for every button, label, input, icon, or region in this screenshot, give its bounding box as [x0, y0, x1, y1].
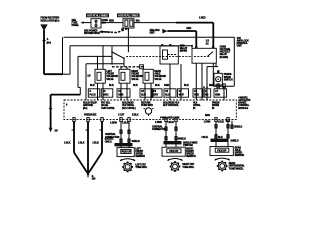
sensor B wires — [166, 122, 176, 148]
pressure warning switch box — [214, 73, 222, 86]
sensor B inline connectors — [165, 127, 177, 140]
svg-text:ONLY): ONLY) — [105, 140, 112, 143]
wire thick drop to relay — [212, 23, 214, 49]
svg-text:RED: RED — [194, 94, 199, 97]
fuse panel header HOT AT ALL TIMES 2 — [117, 13, 140, 17]
svg-text:PICK UP: PICK UP — [122, 151, 131, 154]
svg-text:BLK: BLK — [226, 120, 231, 123]
module internal labels col 4 — [141, 102, 153, 108]
svg-text:SHIELD: SHIELD — [178, 137, 186, 140]
svg-text:1 BRN: 1 BRN — [204, 120, 211, 123]
pressure switch feed wires — [203, 63, 219, 100]
tone wheel B — [170, 161, 181, 172]
fuse F1 box — [91, 19, 101, 28]
svg-text:GRY1: GRY1 — [103, 94, 110, 97]
tone wheel A label — [135, 163, 147, 169]
fuse F2 box — [123, 19, 134, 28]
hydraulic unit label — [237, 37, 249, 48]
wire gauge labels row — [90, 84, 214, 87]
svg-text:1 BRN: 1 BRN — [110, 121, 117, 124]
wire RED right run — [134, 22, 177, 24]
svg-text:PLUG: PLUG — [90, 94, 96, 97]
arrow to fuse details — [72, 19, 92, 27]
wire bus Y46 — [70, 45, 193, 49]
svg-text:BLK: BLK — [184, 84, 189, 87]
svg-text:1 RED: 1 RED — [199, 17, 206, 20]
wire bus Y86 — [213, 84, 234, 100]
svg-text:SENSOR: SENSOR — [235, 154, 245, 157]
connector C5c pin box — [178, 89, 189, 97]
sensor C wire labels top — [204, 120, 231, 124]
svg-text:DISTRIBUTION: DISTRIBUTION — [84, 32, 100, 35]
sensor C wires — [216, 122, 228, 147]
svg-text:VALVE: VALVE — [106, 78, 114, 81]
splice to power distribution — [99, 28, 129, 34]
connector C2 pin box — [101, 89, 113, 97]
solenoid valve 1 box — [95, 46, 105, 83]
connector C6 pin box — [193, 89, 203, 97]
svg-text:BLK: BLK — [109, 84, 114, 87]
svg-text:TONE WHL: TONE WHL — [135, 166, 147, 169]
sensor A label — [135, 147, 145, 158]
sensor A rotation arc — [120, 159, 135, 161]
sensor A inline connectors — [120, 130, 130, 142]
sensor B label — [186, 147, 196, 158]
wire fuse drop X128 — [127, 28, 129, 52]
ground wire heavy — [49, 95, 80, 129]
svg-text:RED: RED — [209, 84, 214, 87]
solenoid valve 2 label — [131, 70, 143, 81]
sensor C shield stub — [231, 121, 243, 129]
svg-text:(KLIMA): (KLIMA) — [220, 56, 229, 59]
ABS relay K1 box — [160, 44, 178, 64]
connector C3 pin box — [117, 89, 130, 97]
fuse F1 value label — [102, 19, 140, 25]
ground wire 1 of funnel — [73, 122, 75, 153]
module internal labels col 3 — [122, 102, 136, 110]
svg-text:CONNECTOR: CONNECTOR — [105, 136, 120, 139]
svg-text:VALVE: VALVE — [131, 78, 139, 81]
svg-text:PRESSURE: PRESSURE — [84, 113, 97, 116]
wire riser X62 — [62, 37, 64, 74]
wire bus Y37 — [64, 36, 235, 38]
svg-text:SHIELD: SHIELD — [132, 140, 140, 143]
svg-text:PICK UP: PICK UP — [169, 150, 178, 153]
svg-text:SENSOR: SENSOR — [135, 155, 145, 158]
module internal label bottom left — [84, 113, 97, 116]
connector C1 pin box — [88, 89, 100, 97]
overvoltage protection relay box — [192, 46, 216, 63]
sensor B central connector label — [152, 125, 167, 131]
svg-text:PUMP MTR: PUMP MTR — [141, 104, 153, 107]
svg-text:HOT AT ALL TIMES: HOT AT ALL TIMES — [118, 14, 138, 18]
funnel note label — [105, 138, 114, 144]
module bottom pin ticks — [73, 118, 229, 122]
sensor C shield bar — [211, 139, 229, 142]
module right label — [238, 96, 250, 109]
return pump motor symbol — [144, 108, 154, 116]
svg-text:2 BLK: 2 BLK — [132, 113, 139, 116]
ground distribution arrow — [150, 29, 168, 35]
wheel speed sensor B box — [162, 147, 185, 156]
connector C7 pin box — [214, 89, 227, 97]
sensor A shield bar — [115, 143, 133, 146]
svg-text:RED: RED — [109, 20, 114, 23]
funnel wire ticks — [72, 129, 102, 131]
svg-text:(B+): (B+) — [83, 107, 88, 110]
sensor A central connector label — [105, 133, 120, 139]
svg-text:VALVE: VALVE — [154, 78, 162, 81]
svg-text:TONE WHL: TONE WHL — [182, 166, 194, 169]
svg-text:1 BLK: 1 BLK — [78, 142, 85, 145]
svg-text:BLK: BLK — [218, 136, 223, 139]
pressure switch label — [224, 73, 233, 81]
wire drop X124 — [123, 58, 125, 67]
wire label A (B+) — [43, 38, 52, 44]
hydraulic unit frame right edge — [233, 37, 235, 86]
sensor B shield bar — [164, 141, 182, 144]
module internal labels col 5 — [163, 102, 180, 108]
sensor B rotation arc — [168, 159, 183, 161]
wire branch X86 — [86, 64, 124, 100]
wire riser X70 — [69, 46, 71, 74]
tone wheel B label — [182, 163, 194, 169]
ground G5 — [49, 128, 59, 133]
ABS relay K1 label — [180, 44, 188, 52]
svg-text:BLU: BLU — [165, 94, 170, 97]
svg-text:SHIELD: SHIELD — [234, 125, 242, 128]
svg-text:BRN: BRN — [215, 94, 220, 97]
power feed triangle — [40, 24, 47, 31]
svg-text:RD: RD — [205, 94, 209, 97]
svg-text:BLU: BLU — [141, 94, 146, 97]
svg-text:GRY: GRY — [153, 94, 158, 97]
node B+ feed label — [41, 17, 60, 23]
funnel converging wires — [74, 153, 102, 173]
svg-text:BLK: BLK — [133, 84, 138, 87]
tone wheel A — [122, 162, 133, 173]
sensor C rotation arc — [215, 158, 230, 160]
svg-text:GRN: GRN — [164, 84, 169, 87]
wire pins to valve 2 — [121, 67, 127, 70]
ground wire 2 of funnel — [87, 122, 89, 173]
module internal pin labels bottom — [118, 113, 210, 119]
svg-text:MODULE: MODULE — [238, 107, 248, 110]
svg-text:1 BLK: 1 BLK — [64, 142, 71, 145]
overvoltage relay label — [220, 45, 231, 58]
ground wire 3 of funnel — [101, 122, 103, 153]
ground splice label — [92, 175, 96, 181]
svg-text:UNIT: UNIT — [237, 45, 243, 48]
svg-text:4 BLK: 4 BLK — [201, 136, 208, 139]
svg-text:PANEL: PANEL — [72, 24, 80, 27]
svg-text:REGULATOR (B+): REGULATOR (B+) — [41, 19, 60, 22]
ABS relay contact cluster — [111, 46, 125, 64]
sensor A wires — [121, 122, 129, 148]
svg-text:PICK UP: PICK UP — [217, 149, 226, 152]
tone wheel C label — [229, 162, 245, 171]
solenoid valve 1 label — [106, 70, 118, 81]
svg-text:1 BLK: 1 BLK — [167, 121, 174, 124]
wire dashed link to relay — [126, 55, 192, 57]
module internal labels col 6 — [193, 102, 201, 110]
svg-text:1 BLK: 1 BLK — [218, 120, 225, 123]
svg-text:(MAIN): (MAIN) — [180, 50, 187, 53]
connector C4 pin box — [140, 89, 153, 97]
wheel speed sensor C box — [210, 147, 233, 156]
svg-text:HOT AT ALL TIMES: HOT AT ALL TIMES — [87, 14, 108, 18]
svg-text:TEST CNTRL: TEST CNTRL — [101, 107, 115, 110]
svg-text:SHIELD: SHIELD — [230, 140, 238, 143]
connector label 1 RED — [206, 40, 210, 46]
svg-text:BLK: BLK — [90, 84, 95, 87]
svg-text:RED: RED — [205, 114, 210, 117]
wheel speed sensor A box — [117, 148, 134, 157]
svg-text:1 BRN: 1 BRN — [155, 121, 162, 124]
svg-text:TONE WHEEL: TONE WHEEL — [229, 167, 244, 170]
wire B+ vertical — [43, 30, 45, 74]
sensor B shield note — [183, 141, 198, 147]
svg-text:DIST: DIST — [150, 32, 156, 35]
sensor C connector labels — [201, 136, 223, 139]
module internal labels col 1 — [83, 102, 97, 110]
module internal labels col 2 — [101, 102, 115, 110]
wire branch X78 — [78, 56, 112, 94]
sensor A wire labels top — [110, 121, 129, 124]
wire RED thick to relay coil — [167, 27, 196, 49]
svg-text:RLY CONTROL: RLY CONTROL — [163, 104, 179, 107]
svg-text:1 BLK: 1 BLK — [92, 142, 99, 145]
wire RED between fuses — [101, 20, 123, 23]
wire heavy dashed Y67 — [112, 65, 144, 69]
connector C5b pin box — [164, 89, 176, 97]
ABS control module box — [64, 100, 236, 120]
sensor C label — [235, 146, 245, 157]
svg-text:SWITCH: SWITCH — [224, 78, 233, 81]
svg-text:WHT: WHT — [179, 94, 185, 97]
solenoid valve 2 box — [119, 69, 130, 83]
funnel wire labels — [64, 142, 99, 145]
connector C6b pin box — [204, 89, 211, 97]
svg-text:(VLV CNTRL): (VLV CNTRL) — [122, 107, 136, 110]
sensor C inline connectors — [215, 125, 229, 138]
ground splice dot — [87, 173, 90, 178]
svg-text:1 BLK: 1 BLK — [122, 121, 129, 124]
overvoltage relay output wires — [196, 63, 213, 100]
svg-text:RED: RED — [186, 27, 191, 30]
fuse panel header HOT AT ALL TIMES — [86, 13, 109, 17]
wire bottom of B+ loop — [44, 73, 70, 75]
label see power distribution — [84, 29, 100, 35]
wire 1 RED thick run — [176, 22, 213, 24]
connector C5 pin box — [152, 89, 162, 97]
svg-text:CONNECTOR: CONNECTOR — [152, 128, 167, 131]
svg-text:C 1ST: C 1ST — [118, 113, 125, 116]
svg-text:BLK: BLK — [155, 84, 160, 87]
solenoid valve 3 label — [154, 70, 166, 81]
tone wheel C — [217, 161, 228, 172]
module internal labels col 7 — [212, 102, 220, 110]
solenoid valve 3 box — [143, 69, 153, 83]
svg-text:(B+): (B+) — [47, 42, 52, 45]
sensor B wire labels top — [155, 121, 174, 124]
valve bottom pins — [98, 83, 152, 100]
svg-text:30A: 30A — [136, 19, 140, 22]
svg-text:SENSOR: SENSOR — [186, 155, 196, 158]
svg-text:GRN: GRN — [118, 94, 123, 97]
relay K1 output wires — [170, 64, 181, 100]
